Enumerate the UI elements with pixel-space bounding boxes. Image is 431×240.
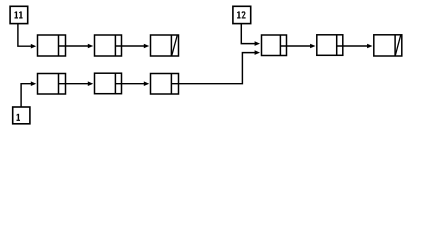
wire head 12 to node C1 — [241, 24, 260, 46]
node B3 — [151, 74, 179, 95]
wire head 1 to node B1 — [21, 81, 36, 106]
wire C2 to C3 — [337, 44, 373, 49]
head box 12 — [233, 6, 251, 23]
node B2 — [95, 73, 122, 94]
node C3 with null slash — [374, 35, 402, 56]
wire A2 to A3 — [115, 44, 149, 49]
wire C1 to C2 — [280, 44, 315, 49]
wire head 11 to node A1 — [18, 24, 36, 49]
node B1 — [38, 74, 66, 95]
node A3 with null slash — [151, 35, 179, 56]
head box 1 — [13, 107, 30, 124]
node A1 — [38, 35, 66, 56]
wire B2 to B3 — [115, 81, 149, 86]
wire B1 to B2 — [59, 81, 94, 86]
node C2 — [317, 35, 343, 56]
node A2 — [95, 35, 122, 56]
head box 11 — [10, 6, 28, 23]
wire A1 to A2 — [59, 44, 94, 49]
node C1 — [262, 35, 287, 56]
wire B3 to node C1 (long route right, up, right) — [171, 50, 260, 83]
